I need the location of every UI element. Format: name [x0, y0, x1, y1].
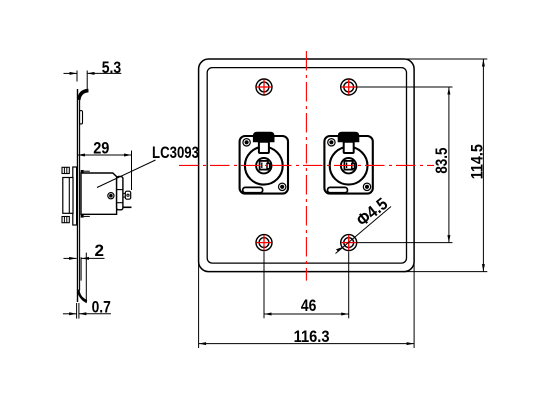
connector U2 barrel circle — [330, 147, 368, 185]
connector U2 flange screw top left — [328, 139, 335, 146]
dimension 116.3 extension line right — [413, 262, 415, 348]
connector U1 center right notch — [267, 163, 270, 168]
connector U1 flange screw bottom right — [279, 183, 286, 190]
dimension 83.5 extension line top — [357, 86, 452, 88]
svg-text:2: 2 — [95, 241, 104, 260]
connector side view top nut — [81, 170, 84, 174]
dimension 46 extension line right — [348, 252, 350, 319]
label LC3093 leader line — [97, 160, 156, 188]
dimension 46 extension line left — [263, 252, 265, 319]
dimension 0.7 extension line right — [78, 303, 80, 319]
connector side view bottom flat tab — [123, 206, 132, 208]
connector side view tab neck lines — [123, 192, 125, 194]
dimension 114.5 arrow bottom — [482, 264, 485, 272]
svg-text:114.5: 114.5 — [468, 144, 487, 179]
dimension 5.3 extension line left — [76, 71, 78, 82]
connector U2 latch button — [338, 132, 360, 142]
connector side view bottom nut line — [84, 215, 90, 217]
dimension 83.5 arrow bottom — [447, 235, 450, 243]
dimension 29 arrow right — [124, 154, 132, 157]
dimension 114.5 line — [482, 59, 484, 272]
connector U1 barrel circle — [245, 147, 283, 185]
dimension 5.3 arrow right — [87, 72, 95, 75]
side view curl back reference line — [85, 253, 87, 301]
connector side view top screw head — [62, 167, 69, 173]
svg-text:0.7: 0.7 — [92, 298, 111, 317]
svg-text:83.5: 83.5 — [432, 148, 451, 174]
connector U2 center square inner line — [346, 163, 348, 169]
connector U1 latch slider — [259, 142, 269, 153]
dimension 2 arrow left — [69, 257, 77, 260]
side view plate bottom curl — [77, 290, 87, 304]
dimension 114.5 extension line bottom — [402, 271, 487, 273]
screw hole top left — [256, 79, 272, 95]
connector U2 inner circle — [341, 158, 356, 173]
connector U2 center right notch — [352, 163, 355, 168]
connector U2 flange — [324, 136, 372, 194]
dimension 46 arrow right — [341, 313, 349, 316]
connector side view top nut line — [84, 170, 90, 172]
dimension phi4.5 leader line — [336, 207, 392, 254]
connector U1 flange screw top left — [243, 139, 250, 146]
front view inner plate outline — [207, 68, 406, 264]
dimension 114.5 extension line top — [402, 58, 487, 60]
dimension 0.7 extension line left — [76, 303, 78, 319]
side view plate front face line — [77, 89, 79, 302]
connector U2 center square — [344, 161, 352, 170]
horizontal centerline — [179, 164, 434, 166]
connector U1 flange — [240, 136, 288, 194]
dimension 2 line left — [64, 257, 77, 259]
connector side view main body — [81, 173, 117, 214]
connector U1 latch button — [253, 132, 275, 142]
screw hole top right — [341, 79, 357, 95]
connector U1 center square — [260, 161, 268, 170]
dimension 5.3 arrow left — [70, 72, 78, 75]
svg-text:116.3: 116.3 — [294, 327, 330, 346]
dimension 83.5 extension line bottom — [357, 242, 452, 244]
dimension 0.7 line right — [79, 313, 111, 315]
dimension phi4.5 leader arrow — [336, 247, 343, 252]
dimension 116.3 line — [199, 343, 415, 345]
dimension 0.7 arrow left — [69, 312, 77, 315]
dimension 5.3 line left — [64, 72, 78, 74]
connector side view barrel rim divider — [68, 178, 70, 214]
connector side view flange strip — [73, 167, 77, 225]
side view plate top curl — [77, 89, 88, 101]
connector U2 latch slider — [344, 142, 354, 153]
dimension 116.3 arrow left — [199, 342, 207, 345]
svg-text:29: 29 — [93, 139, 109, 158]
connector side view rear cap band line 1 — [117, 189, 123, 191]
dimension 0.7 arrow right — [79, 312, 87, 315]
connector side view solder tab — [125, 191, 130, 199]
dimension 2 line right — [82, 257, 105, 259]
dimension 29 arrow left — [78, 154, 86, 157]
dimension 116.3 extension line left — [198, 262, 200, 348]
connector side view bottom nut — [81, 214, 84, 218]
connector side view front barrel — [63, 178, 73, 214]
side view plate back rib line — [80, 257, 82, 280]
dimension 0.7 line left — [63, 313, 77, 315]
dimension 29 extension line — [131, 151, 133, 191]
svg-text:5.3: 5.3 — [102, 58, 121, 77]
dimension 29 line — [78, 154, 132, 156]
screw hole bottom left — [256, 235, 272, 251]
dimension 2 arrow right — [82, 257, 90, 260]
side view plate back face line — [79, 98, 81, 291]
dimension 116.3 arrow right — [407, 342, 415, 345]
svg-text:46: 46 — [301, 296, 317, 315]
connector side view housing screw — [108, 193, 114, 199]
dimension 46 arrow left — [264, 313, 272, 316]
connector side view rear cap — [117, 177, 123, 210]
dimension 5.3 extension line right — [86, 71, 88, 92]
dimension 46 line — [264, 313, 349, 315]
dimension 5.3 line right — [87, 72, 121, 74]
connector side view rear cap band line 2 — [117, 202, 123, 204]
dimension 83.5 line — [448, 87, 450, 243]
connector U1 center square inner line — [261, 163, 263, 169]
connector U2 flange screw bottom right — [363, 183, 370, 190]
connector U2 bottom slot — [328, 187, 348, 192]
connector U1 bottom slot — [243, 187, 263, 192]
connector U1 inner circle — [256, 158, 271, 173]
front view outer plate outline — [199, 59, 415, 272]
connector side view bottom screw head — [62, 217, 69, 223]
screw hole bottom right — [341, 235, 357, 251]
dimension 83.5 arrow top — [447, 87, 450, 95]
dimension 114.5 arrow top — [482, 59, 485, 67]
svg-text:LC3093: LC3093 — [152, 143, 199, 162]
vertical centerline — [305, 51, 307, 281]
side view plate back clip bump — [80, 111, 83, 125]
